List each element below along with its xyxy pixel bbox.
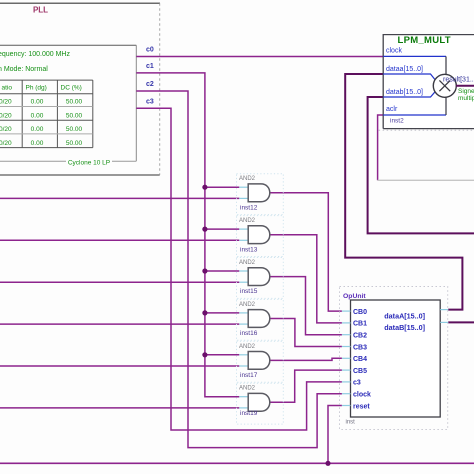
svg-text:n Mode: Normal: n Mode: Normal [0,66,48,73]
svg-text:AND2: AND2 [239,260,256,266]
svg-text:result[31..0]: result[31..0] [443,76,474,83]
svg-text:0.00: 0.00 [31,140,44,147]
svg-text:inst13: inst13 [240,246,258,253]
svg-text:CB2: CB2 [353,333,367,340]
svg-text:0/20: 0/20 [0,140,12,147]
svg-text:dataB[15..0]: dataB[15..0] [384,323,425,332]
svg-text:CB1: CB1 [353,321,367,328]
svg-text:dataa[15..0]: dataa[15..0] [386,66,423,73]
svg-text:c1: c1 [146,63,154,70]
svg-text:AND2: AND2 [239,218,256,224]
svg-text:0.00: 0.00 [31,112,44,119]
svg-text:atio: atio [2,85,13,92]
svg-text:inst: inst [346,420,356,426]
svg-text:multiplication: multiplication [458,95,474,102]
svg-text:0.00: 0.00 [31,99,44,106]
svg-text:inst2: inst2 [390,117,404,124]
svg-text:OpUnit: OpUnit [343,293,366,300]
svg-text:50.00: 50.00 [66,140,83,147]
svg-text:0.00: 0.00 [31,126,44,133]
svg-text:AND2: AND2 [239,344,256,350]
svg-text:PLL: PLL [33,6,48,15]
svg-text:0/20: 0/20 [0,126,12,133]
svg-text:AND2: AND2 [239,302,256,308]
svg-text:50.00: 50.00 [66,112,83,119]
svg-text:c3: c3 [353,380,361,387]
svg-text:inst17: inst17 [240,372,258,379]
svg-text:CB0: CB0 [353,309,367,316]
svg-text:datab[15..0]: datab[15..0] [386,89,423,96]
svg-text:CB3: CB3 [353,344,367,351]
svg-text:LPM_MULT: LPM_MULT [398,35,451,46]
svg-text:0/20: 0/20 [0,99,12,106]
svg-text:inst19: inst19 [240,410,258,417]
svg-text:Signed: Signed [458,88,474,95]
svg-text:dataA[15..0]: dataA[15..0] [384,311,425,320]
svg-text:50.00: 50.00 [66,126,83,133]
svg-text:aclr: aclr [386,106,398,113]
svg-text:AND2: AND2 [239,176,256,182]
svg-text:clock: clock [386,48,402,55]
svg-text:clock: clock [353,392,371,399]
svg-text:DC (%): DC (%) [61,85,82,92]
svg-text:AND2: AND2 [239,386,256,392]
svg-text:reset: reset [353,403,370,410]
svg-text:equency: 100.000 MHz: equency: 100.000 MHz [0,51,70,58]
svg-text:c3: c3 [146,98,154,105]
svg-text:Cyclone 10 LP: Cyclone 10 LP [68,160,110,167]
svg-text:inst15: inst15 [240,288,258,295]
svg-text:CB5: CB5 [353,368,367,375]
svg-text:c2: c2 [146,81,154,88]
svg-text:0/20: 0/20 [0,112,12,119]
svg-text:inst12: inst12 [240,204,258,211]
svg-text:50.00: 50.00 [66,99,83,106]
svg-text:Ph (dg): Ph (dg) [26,85,47,92]
svg-text:CB4: CB4 [353,356,367,363]
svg-text:inst16: inst16 [240,330,258,337]
svg-text:c0: c0 [146,47,154,54]
